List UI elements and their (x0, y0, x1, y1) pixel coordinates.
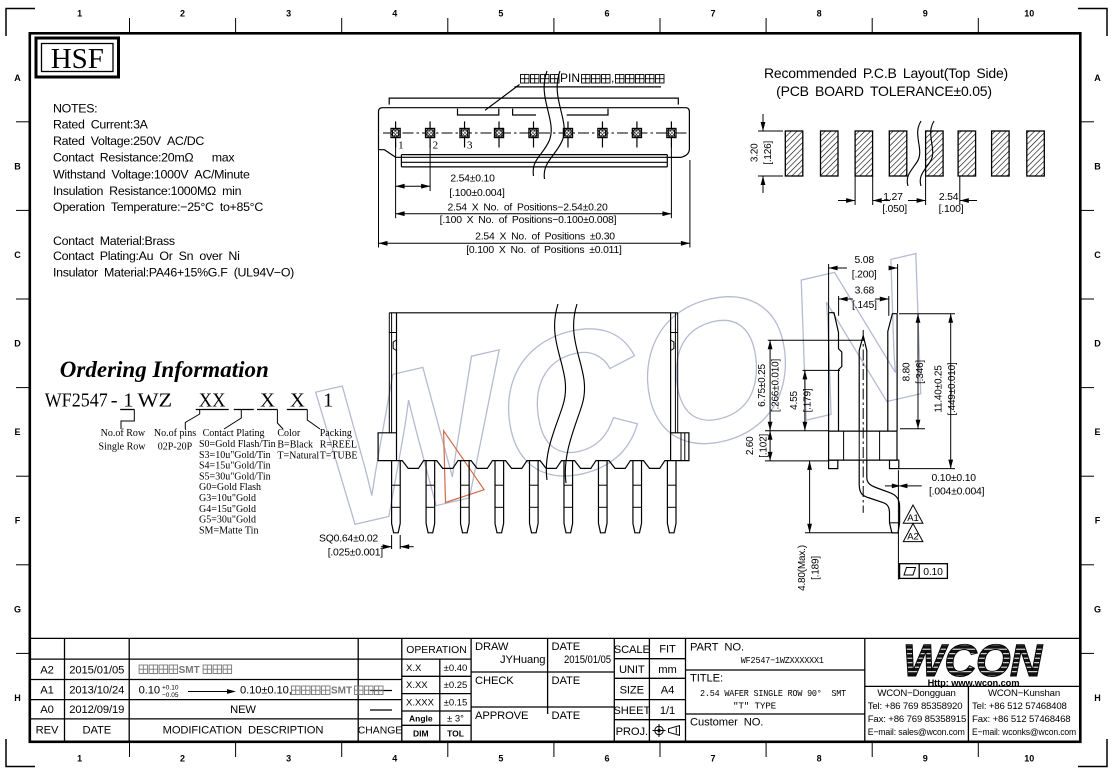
svg-text:G4=15u"Gold: G4=15u"Gold (199, 504, 256, 515)
front view pin 7 (598, 461, 607, 533)
svg-text:A2: A2 (40, 665, 53, 677)
svg-text:Contact Material:Brass: Contact Material:Brass (53, 234, 175, 248)
svg-text:DATE: DATE (552, 710, 581, 722)
revision A2 chinese (139, 665, 232, 676)
svg-text:2: 2 (433, 140, 439, 152)
svg-text:E−mail: sales@wcon.com: E−mail: sales@wcon.com (868, 727, 965, 738)
svg-text:DATE: DATE (552, 675, 581, 687)
pin pad 9 (top view) (667, 121, 676, 147)
svg-text:XX: XX (199, 390, 226, 412)
svg-text:[.449±0.010]: [.449±0.010] (947, 362, 958, 416)
ordering labels (99, 428, 358, 536)
svg-text:NEW: NEW (230, 704, 256, 716)
svg-text:Color: Color (277, 428, 300, 439)
svg-text:Recommended P.C.B Layout(Top S: Recommended P.C.B Layout(Top Side) (764, 65, 1008, 81)
svg-text:3: 3 (286, 754, 291, 764)
flatness control frame (900, 564, 948, 579)
pin pad 7 (top view) (598, 121, 607, 147)
svg-text:4.80(Max.): 4.80(Max.) (797, 545, 808, 591)
pin pad 5 (top view) (529, 121, 538, 147)
front view left tab (378, 433, 397, 461)
pcb pad 7 (992, 131, 1010, 176)
svg-text:2013/10/24: 2013/10/24 (69, 685, 124, 697)
svg-text:A1: A1 (907, 513, 919, 524)
pcb pad 5 (926, 131, 944, 176)
svg-text:WF2547: WF2547 (45, 390, 108, 412)
svg-text:1: 1 (123, 390, 133, 412)
dimension 2.54 x positions ±0.30 (379, 150, 690, 256)
svg-text:[.126]: [.126] (763, 140, 774, 164)
svg-text:Ordering Information: Ordering Information (60, 357, 269, 382)
svg-text:X: X (260, 390, 275, 412)
svg-text:Rated Current:3A: Rated Current:3A (53, 118, 149, 132)
part no block (690, 642, 847, 729)
svg-text:S0=Gold Flash/Tin: S0=Gold Flash/Tin (199, 439, 276, 450)
front view pin 8 (633, 461, 642, 533)
svg-text:No.of pins: No.of pins (154, 428, 196, 439)
svg-text:FIT: FIT (659, 644, 676, 656)
svg-text:X.XXX: X.XXX (406, 697, 435, 708)
svg-text:2.54±0.10: 2.54±0.10 (450, 174, 495, 185)
svg-text:B: B (14, 161, 21, 171)
svg-text:2: 2 (180, 754, 185, 764)
HSF logo box (36, 38, 119, 77)
svg-text:Customer NO.: Customer NO. (690, 717, 763, 729)
pcb pad 4 (889, 131, 907, 176)
dimension 2.54±0.10 (396, 143, 505, 199)
svg-text:mm: mm (658, 664, 676, 676)
revision A1 text (139, 685, 383, 700)
svg-text:−0.05: −0.05 (162, 692, 179, 699)
svg-text:E: E (1094, 427, 1100, 437)
pin pad 8 (top view) (632, 121, 641, 147)
svg-text:1.27: 1.27 (883, 192, 903, 203)
svg-text:4.55: 4.55 (789, 391, 800, 410)
scale block (613, 644, 676, 739)
dimension 4.80 max (797, 461, 893, 591)
svg-text:T=Natural: T=Natural (277, 450, 319, 461)
svg-text:OPERATION: OPERATION (406, 645, 466, 656)
svg-text:CHECK: CHECK (475, 675, 514, 687)
dimension 0.10 smt (885, 470, 985, 579)
svg-text:11.40±0.25: 11.40±0.25 (934, 365, 945, 413)
side view center pin (859, 330, 867, 513)
svg-text:,: , (611, 71, 614, 85)
front view scalloped bottom edge (397, 461, 671, 469)
datum triangle A1 (903, 505, 923, 524)
svg-text:SIZE: SIZE (620, 685, 644, 697)
front view pin 1 (392, 461, 401, 533)
svg-text:10: 10 (1024, 9, 1034, 19)
svg-text:6: 6 (604, 754, 609, 764)
front view pin 5 (530, 461, 539, 533)
dimension SQ0.64 (319, 534, 414, 559)
svg-text:5: 5 (498, 754, 503, 764)
svg-text:2.54 WAFER SINGLE ROW 90° SMT: 2.54 WAFER SINGLE ROW 90° SMT (700, 688, 847, 699)
svg-text:A1: A1 (40, 685, 53, 697)
svg-text:[.179]: [.179] (803, 388, 814, 412)
operation tolerance table (406, 645, 467, 739)
pcb pad 8 (1027, 131, 1045, 176)
svg-text:PART NO.: PART NO. (690, 642, 744, 654)
pin pad 3 (top view) (460, 121, 469, 147)
svg-text:Http: www.wcon.com: Http: www.wcon.com (928, 678, 1020, 688)
svg-text:[.100]: [.100] (939, 204, 964, 215)
svg-text:0.10±0.10: 0.10±0.10 (932, 473, 977, 484)
svg-text:D: D (1094, 339, 1101, 349)
svg-text:2.54: 2.54 (939, 192, 959, 203)
svg-text:Insulation Resistance:1000MΩ m: Insulation Resistance:1000MΩ min (53, 184, 242, 198)
front view body outline (389, 313, 678, 461)
svg-text:G: G (14, 604, 21, 614)
svg-text:1: 1 (323, 390, 333, 412)
svg-text:UNIT: UNIT (619, 664, 645, 676)
svg-text:F: F (15, 516, 21, 526)
svg-text:+0.10: +0.10 (162, 685, 179, 692)
svg-text:PROJ.: PROJ. (616, 726, 648, 738)
svg-text:±0.15: ±0.15 (444, 697, 468, 708)
notes text (53, 102, 294, 280)
projection symbol (653, 724, 680, 737)
svg-text:0.10±0.10,: 0.10±0.10, (240, 685, 292, 697)
front view break line (546, 304, 565, 480)
dimension 1.27 (838, 176, 907, 215)
title block lines (30, 638, 1081, 741)
svg-text:G5=30u"Gold: G5=30u"Gold (199, 515, 256, 526)
svg-text:[.100 X No. of Positions−0.100: [.100 X No. of Positions−0.100±0.008] (440, 215, 617, 226)
svg-text:DIM: DIM (413, 729, 429, 739)
svg-text:0.10: 0.10 (139, 685, 160, 697)
svg-text:X.XX: X.XX (406, 680, 428, 691)
svg-text:±0.40: ±0.40 (444, 663, 468, 674)
svg-text:PIN: PIN (560, 71, 580, 85)
svg-text:A2: A2 (907, 532, 919, 543)
svg-text:8: 8 (817, 9, 822, 19)
watermark orange triangle (444, 431, 485, 503)
top view notches (458, 109, 499, 115)
front view pin 4 (495, 461, 504, 533)
dimension 8.80 (899, 314, 955, 429)
svg-text:[0.100 X No. of Positions ±0.0: [0.100 X No. of Positions ±0.011] (466, 245, 622, 256)
side view walls (829, 313, 898, 431)
top view break line (533, 71, 551, 176)
svg-text:A: A (14, 73, 21, 83)
svg-text:WZ: WZ (138, 390, 173, 412)
front view pin 6 (564, 461, 573, 533)
svg-text:1: 1 (398, 140, 404, 152)
svg-text:TITLE:: TITLE: (690, 673, 723, 685)
svg-text:2.60: 2.60 (745, 436, 756, 455)
pcb pad 1 (785, 131, 803, 176)
dimension 11.40 (899, 314, 958, 469)
svg-text:2.54 X No. of Positions−2.54±0: 2.54 X No. of Positions−2.54±0.20 (447, 203, 608, 214)
svg-text:A0: A0 (40, 704, 53, 716)
svg-text:[.025±0.001]: [.025±0.001] (328, 548, 384, 559)
pin pad 6 (top view) (563, 121, 572, 147)
side view bottom tabs (829, 460, 838, 469)
dimension 3.20 (750, 114, 784, 193)
svg-text:SCALE: SCALE (614, 644, 650, 656)
wcon logo (903, 635, 1044, 688)
svg-text:WCON−Dongguan: WCON−Dongguan (877, 688, 955, 699)
ordering leaders (121, 410, 134, 430)
svg-text:SQ0.64±0.02: SQ0.64±0.02 (319, 534, 378, 545)
svg-text:2.54 X No. of Positions ±0.30: 2.54 X No. of Positions ±0.30 (475, 232, 615, 243)
dimension 2.54 x positions -2.54 (396, 148, 672, 226)
svg-text:Contact Resistance:20mΩ max: Contact Resistance:20mΩ max (53, 151, 235, 165)
svg-text:7: 7 (711, 754, 716, 764)
datum triangle A2 (903, 524, 923, 543)
dimension 4.55 (789, 370, 840, 430)
svg-text:8.80: 8.80 (902, 362, 913, 381)
svg-text:8: 8 (817, 754, 822, 764)
svg-text:[.100±0.004]: [.100±0.004] (449, 188, 505, 199)
svg-text:TOL: TOL (447, 729, 464, 739)
svg-text:3.20: 3.20 (750, 143, 761, 162)
svg-text:WCON−Kunshan: WCON−Kunshan (988, 688, 1060, 699)
svg-text:E: E (14, 427, 20, 437)
callout chinese text (515, 71, 665, 87)
svg-text:Rated Voltage:250V AC/DC: Rated Voltage:250V AC/DC (53, 134, 204, 148)
svg-text:C: C (1094, 250, 1101, 260)
svg-text:Tel: +86 512 57468408: Tel: +86 512 57468408 (972, 701, 1067, 712)
pcb pad 2 (821, 131, 839, 176)
top view connector body (379, 98, 690, 167)
pin pad 1 (top view) (391, 121, 400, 147)
svg-text:6.75±0.25: 6.75±0.25 (757, 364, 768, 407)
svg-text:SMT: SMT (179, 665, 200, 676)
svg-text:3: 3 (467, 140, 473, 152)
svg-text:D: D (14, 339, 21, 349)
svg-text:9: 9 (923, 9, 928, 19)
svg-text:G0=Gold Flash: G0=Gold Flash (199, 482, 261, 493)
svg-text:Withstand Voltage:1000V AC/Min: Withstand Voltage:1000V AC/Minute (53, 168, 250, 182)
svg-text:Fax: +86 769 85358915: Fax: +86 769 85358915 (868, 714, 966, 725)
svg-text:5.08: 5.08 (854, 255, 874, 266)
svg-text:SHEET: SHEET (613, 705, 650, 717)
svg-text:1: 1 (77, 754, 82, 764)
svg-text:NOTES:: NOTES: (53, 102, 97, 116)
revision table text (36, 665, 403, 737)
svg-text:7: 7 (711, 9, 716, 19)
pcb layout title (764, 65, 1008, 99)
svg-text:T=TUBE: T=TUBE (320, 450, 358, 461)
svg-text:H: H (1094, 693, 1101, 703)
svg-text:C: C (14, 250, 21, 260)
dimension 6.75 (757, 340, 863, 430)
svg-text:3.68: 3.68 (855, 286, 875, 297)
WCON watermark (292, 212, 957, 571)
svg-text:A4: A4 (661, 685, 674, 697)
svg-text:2015/01/05: 2015/01/05 (69, 665, 124, 677)
svg-text:[.346]: [.346] (915, 360, 926, 384)
pcb break line (907, 121, 921, 186)
svg-text:A: A (1094, 73, 1101, 83)
pcb pad 6 (958, 131, 976, 176)
side view bent pin foot (859, 460, 889, 523)
svg-text:Contact Plating:Au Or Sn over: Contact Plating:Au Or Sn over Ni (53, 249, 240, 263)
pcb pad 3 (855, 131, 873, 176)
svg-text:APPROVE: APPROVE (475, 710, 528, 722)
svg-text:-: - (111, 390, 118, 412)
svg-text:02P-20P: 02P-20P (158, 442, 193, 453)
svg-text:CHANGE: CHANGE (358, 726, 403, 737)
svg-text:[.189]: [.189] (811, 556, 822, 580)
svg-text:"T" TYPE: "T" TYPE (733, 701, 777, 712)
svg-text:4: 4 (392, 9, 397, 19)
svg-text:0.10: 0.10 (923, 567, 943, 578)
svg-text:[.004±0.004]: [.004±0.004] (929, 487, 985, 498)
svg-text:WF2547−1WZXXXXXX1: WF2547−1WZXXXXXX1 (741, 655, 825, 666)
svg-text:± 3°: ± 3° (447, 713, 464, 724)
svg-text:Packing: Packing (320, 428, 352, 439)
svg-text:[.102]: [.102] (759, 433, 770, 457)
front view pin 2 (426, 461, 435, 533)
front view pin 3 (461, 461, 470, 533)
svg-text:[.145]: [.145] (852, 300, 877, 311)
svg-text:2: 2 (180, 9, 185, 19)
svg-text:G: G (1094, 604, 1101, 614)
svg-text:2012/09/19: 2012/09/19 (69, 704, 124, 716)
svg-text:1/1: 1/1 (660, 705, 675, 717)
svg-text:5: 5 (498, 9, 503, 19)
svg-text:F: F (1095, 516, 1101, 526)
svg-text:S5=30u"Gold/Tin: S5=30u"Gold/Tin (199, 471, 271, 482)
dimension 2.54 pitch (908, 176, 977, 215)
side view body block (829, 431, 897, 460)
svg-text:DATE: DATE (82, 725, 111, 737)
wcon contact info (868, 688, 1076, 738)
svg-text:G3=10u"Gold: G3=10u"Gold (199, 493, 256, 504)
front view pin 9 (667, 461, 676, 533)
svg-text:3: 3 (286, 9, 291, 19)
svg-text:X.X: X.X (406, 663, 422, 674)
svg-text:REV: REV (36, 725, 59, 737)
svg-text:2015/01/05: 2015/01/05 (564, 654, 611, 666)
svg-text:Insulator Material:PA46+15%G.F: Insulator Material:PA46+15%G.F (UL94V−O) (53, 266, 294, 280)
svg-text:(PCB BOARD TOLERANCE±0.05): (PCB BOARD TOLERANCE±0.05) (776, 83, 992, 99)
svg-text:S3=10u"Gold/Tin: S3=10u"Gold/Tin (199, 450, 271, 461)
pin pad 2 (top view) (425, 121, 434, 147)
svg-text:SMT: SMT (331, 686, 352, 697)
svg-text:Contact Plating: Contact Plating (203, 428, 265, 439)
svg-text:DRAW: DRAW (475, 641, 509, 653)
svg-text:X: X (290, 390, 305, 412)
callout leader (485, 85, 520, 111)
top view centerline (383, 132, 687, 134)
dimension 3.68 (839, 286, 889, 316)
svg-text:1: 1 (77, 9, 82, 19)
svg-text:9: 9 (923, 754, 928, 764)
svg-text:Fax: +86 512 57468468: Fax: +86 512 57468468 (972, 714, 1070, 725)
svg-text:HSF: HSF (51, 43, 104, 75)
svg-text:6: 6 (604, 9, 609, 19)
dimension 5.08 (829, 255, 898, 313)
svg-text:[.266±0.010]: [.266±0.010] (771, 359, 782, 413)
svg-text:No.of Row: No.of Row (101, 428, 146, 439)
svg-text:4: 4 (392, 754, 397, 764)
draw/check/approve block (475, 641, 611, 722)
svg-text:R=REEL: R=REEL (320, 439, 357, 450)
svg-text:Angle: Angle (409, 713, 433, 723)
svg-text:MODIFICATION DESCRIPTION: MODIFICATION DESCRIPTION (163, 725, 324, 737)
svg-text:DATE: DATE (552, 641, 581, 653)
svg-text:[.200]: [.200] (852, 270, 877, 281)
svg-text:Single Row: Single Row (99, 442, 147, 453)
dimension 2.60 (745, 418, 828, 461)
svg-text:Operation Temperature:−25°C to: Operation Temperature:−25°C to+85°C (53, 200, 263, 214)
svg-text:Tel: +86 769 85358920: Tel: +86 769 85358920 (868, 701, 963, 712)
svg-text:S4=15u"Gold/Tin: S4=15u"Gold/Tin (199, 461, 271, 472)
svg-text:H: H (14, 693, 21, 703)
svg-text:[.050]: [.050] (882, 204, 907, 215)
svg-text:B=Black: B=Black (277, 439, 313, 450)
svg-text:B: B (1094, 161, 1101, 171)
svg-text:JYHuang: JYHuang (500, 654, 545, 666)
svg-text:E−mail: wconks@wcon.com: E−mail: wconks@wcon.com (972, 727, 1076, 738)
svg-text:±0.25: ±0.25 (444, 680, 468, 691)
svg-text:10: 10 (1024, 754, 1034, 764)
svg-text:SM=Matte Tin: SM=Matte Tin (199, 525, 258, 536)
ordering code (45, 390, 334, 412)
pin pad 4 (top view) (494, 121, 503, 147)
front view right tab (671, 433, 689, 461)
